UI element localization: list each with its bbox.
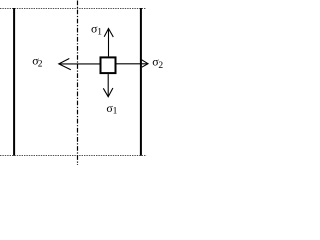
left plate edge line	[13, 8, 15, 156]
svg-text:2: 2	[38, 59, 43, 69]
wire: sigma1 up arrow shaft	[108, 29, 110, 57]
wire: sigma1 down arrow shaft	[107, 74, 109, 96]
bottom dashed section line	[0, 155, 147, 157]
svg-text:1: 1	[97, 28, 102, 38]
svg-text:2: 2	[158, 61, 163, 71]
right plate edge line	[140, 8, 142, 156]
vertical dash-dot centerline	[77, 1, 79, 166]
top dashed section line	[0, 8, 146, 10]
wire: sigma2 left arrow shaft	[60, 63, 101, 65]
sigma2 left arrowhead	[59, 59, 71, 70]
stress element square	[101, 57, 116, 73]
sigma1 up arrowhead	[104, 29, 113, 38]
sigma2 right arrowhead	[142, 60, 149, 67]
svg-text:1: 1	[113, 107, 118, 117]
sigma1 down arrowhead	[103, 88, 113, 97]
wire: sigma2 right arrow shaft	[116, 63, 148, 65]
